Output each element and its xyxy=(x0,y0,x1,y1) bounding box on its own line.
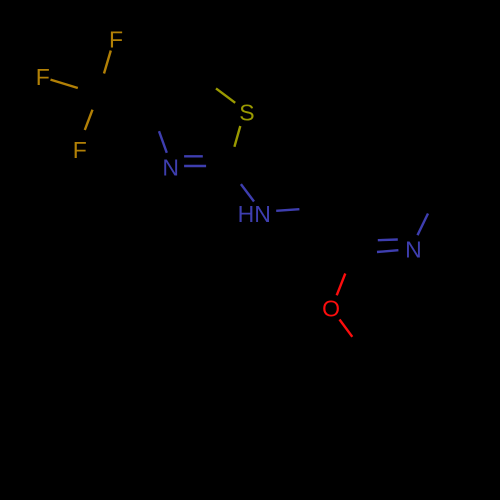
svg-text:N: N xyxy=(405,237,422,263)
svg-text:HN: HN xyxy=(238,201,271,227)
svg-text:S: S xyxy=(239,100,254,126)
svg-text:N: N xyxy=(162,155,179,181)
svg-text:F: F xyxy=(109,27,123,53)
svg-text:O: O xyxy=(322,295,340,321)
svg-text:F: F xyxy=(36,64,50,90)
svg-text:F: F xyxy=(73,137,87,163)
